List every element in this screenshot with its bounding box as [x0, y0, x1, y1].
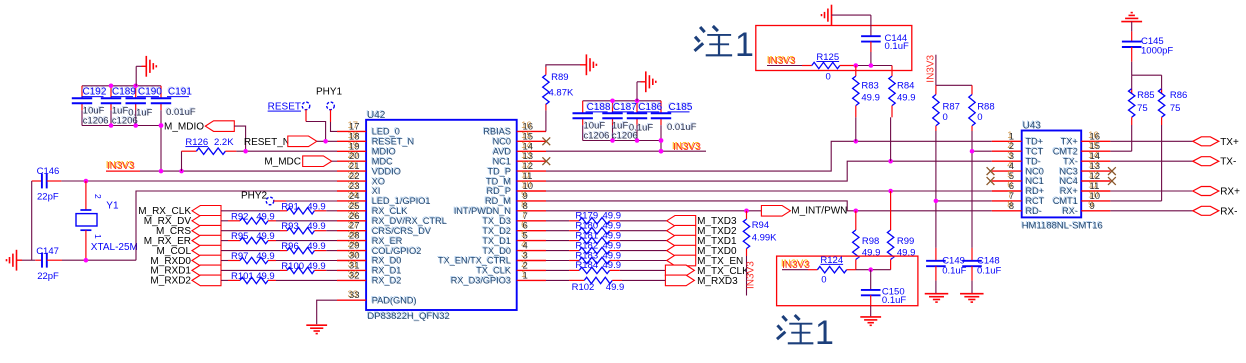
wire RESET: [306, 110, 326, 142]
wire TCT: [972, 150, 992, 152]
wire AVD cap bank top rail: [583, 101, 661, 114]
test point PHY1: [316, 86, 343, 109]
svg-text:R98: R98: [862, 236, 879, 247]
svg-text:C187: C187: [613, 102, 637, 113]
svg-text:49.9: 49.9: [897, 92, 916, 103]
svg-text:C185: C185: [669, 102, 693, 113]
no-connect NC1 pin5: [987, 177, 995, 185]
svg-text:C192: C192: [83, 87, 107, 98]
pin 17 LED_0 of U42: [337, 120, 400, 137]
port M_TXD0: [667, 245, 737, 257]
svg-text:R89: R89: [551, 72, 568, 83]
pin 1 RX_D3/GPIO3 of U42: [450, 269, 546, 286]
svg-text:IN3V3: IN3V3: [673, 142, 701, 153]
capacitor C147: [35, 246, 62, 282]
port M_CRS: [156, 225, 221, 237]
wire AVD: [546, 150, 706, 152]
pin 12 NC4 of U43: [1059, 170, 1111, 187]
capacitor C187: [602, 101, 637, 142]
ground: [586, 54, 596, 75]
port M_TXD2: [667, 225, 737, 237]
port RESET_N: [244, 136, 317, 148]
port M_TXD1: [667, 235, 737, 247]
note text 1: [695, 26, 754, 64]
svg-text:75: 75: [1170, 103, 1181, 114]
pin 8 RD- of U43: [992, 199, 1042, 216]
svg-text:49.9: 49.9: [307, 201, 326, 212]
ground: [925, 294, 949, 302]
svg-text:R99: R99: [897, 236, 914, 247]
svg-text:R96: R96: [281, 241, 298, 252]
svg-text:49.9: 49.9: [862, 248, 881, 259]
pin 23 XI of U42: [337, 180, 380, 197]
resistor R93: [221, 221, 337, 234]
pin 9 RX- of U43: [1061, 199, 1110, 216]
junction: [610, 138, 639, 143]
svg-text:33: 33: [349, 290, 360, 301]
svg-text:c1206: c1206: [584, 131, 610, 142]
pin 14 TX- of U43: [1062, 150, 1110, 167]
svg-text:R95: R95: [231, 231, 248, 242]
note text 1: [777, 314, 834, 352]
resistor R181: [546, 230, 667, 243]
resistor R102: [546, 277, 665, 293]
pin 16 TX+ of U43: [1060, 130, 1111, 147]
svg-text:49.9: 49.9: [603, 260, 622, 271]
port M_MDC: [264, 156, 331, 168]
wire VDDIO cap bank top rail: [82, 86, 161, 99]
svg-text:1000pF: 1000pF: [1141, 46, 1173, 57]
svg-text:0: 0: [821, 274, 826, 285]
resistor R126: [182, 137, 246, 171]
resistor R98: [853, 211, 881, 270]
port M_TX_EN: [667, 255, 744, 267]
svg-text:C146: C146: [37, 166, 60, 177]
svg-text:22pF: 22pF: [37, 271, 59, 282]
wire bias tee: [936, 85, 972, 94]
wire MDIO: [234, 126, 337, 151]
svg-text:U42: U42: [367, 110, 386, 121]
svg-text:0.1uF: 0.1uF: [942, 266, 966, 277]
svg-text:C190: C190: [138, 87, 162, 98]
svg-text:49.9: 49.9: [256, 251, 275, 262]
port RX-: [1193, 206, 1238, 217]
wire PHY1 to LED_0: [331, 110, 338, 132]
pin 5 TX_D1 of U42: [481, 229, 546, 246]
capacitor C144: [861, 15, 909, 65]
resistor R124: [808, 255, 856, 286]
svg-text:1: 1: [735, 26, 754, 64]
pin 13 NC1 of U42: [492, 150, 546, 167]
junction: [659, 149, 664, 154]
svg-text:PHY2: PHY2: [241, 191, 268, 202]
svg-text:RESET_N: RESET_N: [244, 137, 290, 148]
svg-text:R184: R184: [575, 260, 598, 271]
junction: [84, 258, 89, 263]
capacitor C186: [627, 101, 663, 134]
svg-text:R83: R83: [861, 80, 878, 91]
pin 19 MDIO of U42: [337, 140, 396, 157]
resistor R89: [543, 67, 574, 131]
pin 2 TCT of U43: [992, 140, 1044, 157]
svg-text:0.01uF: 0.01uF: [166, 107, 196, 118]
svg-text:49.9: 49.9: [256, 271, 275, 282]
port M_RXD0: [150, 255, 221, 267]
pin 3 TD- of U43: [992, 150, 1041, 167]
wire RD_P: [546, 190, 992, 192]
svg-text:TX-: TX-: [1220, 157, 1236, 168]
ground: [136, 56, 156, 86]
resistor R180: [546, 221, 667, 234]
resistor R97: [221, 251, 337, 264]
svg-text:U43: U43: [1023, 121, 1042, 132]
wire TD_P: [546, 141, 992, 171]
wire PAD(GND): [317, 300, 337, 324]
svg-text:RX_D3/GPIO3: RX_D3/GPIO3: [451, 276, 511, 286]
pin 7 TX_D3 of U42: [481, 209, 546, 226]
svg-text:49.9: 49.9: [307, 241, 326, 252]
svg-text:R126: R126: [185, 137, 208, 148]
resistor R94: [743, 211, 777, 256]
svg-text:R86: R86: [1170, 90, 1187, 101]
junction: [109, 123, 138, 128]
svg-text:RX_D2: RX_D2: [372, 276, 402, 286]
svg-text:4.87K: 4.87K: [549, 88, 574, 99]
pin 6 RD+ of U43: [992, 180, 1044, 197]
svg-text:R102: R102: [572, 282, 595, 293]
pin 10 CMT1 of U43: [1052, 190, 1111, 207]
svg-text:49.9: 49.9: [256, 211, 275, 222]
svg-text:8: 8: [1009, 201, 1014, 212]
pin 8 INT/PWDN_N of U42: [453, 199, 546, 216]
svg-text:R91: R91: [281, 201, 298, 212]
wire XO: [61, 180, 337, 182]
resistor R83: [853, 66, 880, 142]
pin 25 RX_CLK of U42: [337, 199, 408, 216]
port M_TXD3: [667, 216, 737, 228]
svg-text:0: 0: [943, 112, 948, 123]
port M_RXD2: [150, 275, 221, 287]
wire MDC: [332, 160, 337, 162]
pin 16 RBIAS of U42: [482, 120, 546, 137]
junction: [934, 199, 939, 204]
ground: [1121, 13, 1142, 22]
svg-text:M_MDIO: M_MDIO: [164, 122, 204, 133]
svg-text:R88: R88: [977, 101, 994, 112]
resistor R99: [887, 191, 915, 270]
svg-text:2: 2: [93, 194, 103, 199]
pin 9 RD_M of U42: [484, 190, 546, 207]
svg-text:49.9: 49.9: [861, 92, 880, 103]
port M_RX_CLK: [138, 206, 221, 218]
pin 24 LED_1/GPIO1 of U42: [337, 190, 431, 207]
resistor R101: [221, 271, 337, 284]
pin 29 COL/GPIO2 of U42: [337, 239, 421, 256]
wire VDDIO cap bank bottom rail: [82, 103, 161, 125]
svg-text:1: 1: [815, 314, 834, 352]
no-connect NC1 pin13: [542, 157, 550, 165]
resistor R88: [969, 95, 995, 248]
resistor R91: [221, 201, 337, 214]
svg-text:1: 1: [523, 270, 528, 281]
capacitor C148: [962, 248, 1001, 294]
junction: [84, 179, 89, 184]
pin 14 AVD of U42: [492, 140, 546, 157]
wire XI: [136, 191, 337, 260]
port TX+: [1193, 137, 1239, 148]
power port IN3V3: [926, 54, 937, 85]
transformer U43 HM1188NL-SMT16 body: [1021, 120, 1103, 232]
svg-text:R85: R85: [1137, 90, 1154, 101]
svg-text:R125: R125: [816, 52, 839, 63]
junction: [659, 138, 664, 143]
port TX-: [1193, 157, 1237, 168]
svg-text:1: 1: [93, 234, 103, 239]
note box: [777, 256, 918, 306]
resistor R86: [1158, 89, 1187, 201]
svg-text:R94: R94: [752, 220, 769, 231]
resistor R95: [221, 231, 337, 244]
resistor R182: [546, 240, 667, 253]
IC U42 DP83822H_QFN32 body: [366, 109, 517, 322]
power port IN3V3: [106, 160, 140, 172]
ground: [306, 325, 327, 333]
svg-text:C191: C191: [168, 87, 192, 98]
wire RX+: [1110, 190, 1192, 192]
svg-text:RX+: RX+: [1220, 187, 1240, 198]
capacitor C190: [126, 86, 163, 119]
junction: [323, 139, 328, 144]
svg-text:PAD(GND): PAD(GND): [372, 295, 417, 305]
pin 22 XO of U42: [337, 170, 385, 187]
svg-text:R93: R93: [281, 221, 298, 232]
pin 2 TX_CLK of U42: [475, 259, 546, 276]
svg-text:0.1uF: 0.1uF: [882, 295, 906, 306]
svg-text:R101: R101: [231, 271, 254, 282]
svg-text:M_INT/PWN: M_INT/PWN: [791, 206, 847, 217]
svg-text:49.9: 49.9: [606, 282, 625, 293]
power port IN3V3: [672, 141, 701, 153]
svg-text:RD-: RD-: [1026, 206, 1042, 216]
wire RX-: [1110, 210, 1192, 212]
wire RD_M: [546, 201, 992, 211]
capacitor C189: [101, 86, 138, 127]
junction: [854, 63, 874, 68]
svg-text:0.1uF: 0.1uF: [977, 266, 1001, 277]
svg-text:Y1: Y1: [106, 200, 119, 211]
svg-text:C189: C189: [112, 87, 136, 98]
no-connect NC4 pin12: [1108, 177, 1116, 185]
wire XTAL bottom: [62, 259, 136, 261]
resistor R100: [221, 261, 337, 274]
svg-text:R87: R87: [943, 101, 960, 112]
pin 28 RX_ER of U42: [337, 229, 403, 246]
resistor R183: [546, 250, 667, 263]
wire bank to IN3V3 rail: [160, 126, 162, 172]
no-connect NC3 pin13: [1108, 167, 1116, 175]
capacitor C146: [32, 166, 62, 203]
ground: [860, 317, 881, 325]
capacitor C149: [926, 248, 967, 294]
pin 27 CRS/CRS_DV of U42: [337, 219, 432, 236]
capacitor C145: [1122, 22, 1174, 62]
svg-text:DP83822H_QFN32: DP83822H_QFN32: [367, 311, 449, 322]
port M_MDIO: [164, 121, 234, 133]
junction: [744, 209, 749, 214]
pin 11 RX+ of U43: [1059, 180, 1111, 197]
svg-text:PHY1: PHY1: [316, 86, 343, 97]
svg-text:R124: R124: [820, 255, 843, 266]
junction: [159, 123, 164, 128]
port M_RX_DV: [144, 216, 221, 228]
pin 12 TD_P of U42: [487, 160, 547, 177]
pin 26 RX_DV/RX_CTRL of U42: [337, 209, 447, 226]
test point PHY2: [241, 191, 274, 205]
port M_RXD3: [665, 275, 738, 287]
no-connect NC0 pin15: [542, 137, 550, 145]
svg-text:0.01uF: 0.01uF: [667, 122, 697, 133]
svg-text:0: 0: [977, 112, 982, 123]
svg-text:TX+: TX+: [1220, 137, 1239, 148]
pin 20 MDC of U42: [337, 150, 393, 167]
resistor R92: [221, 211, 337, 224]
wire AVD cap bank bottom rail: [583, 118, 661, 140]
svg-text:R97: R97: [231, 251, 248, 262]
pin 4 TX_D0 of U42: [481, 239, 546, 256]
wire RESET_N: [317, 140, 337, 142]
pin 11 TD_M of U42: [485, 170, 546, 187]
svg-text:c1206: c1206: [83, 115, 109, 126]
pin 13 NC3 of U43: [1059, 160, 1111, 177]
resistor R87: [933, 85, 960, 248]
svg-text:0.1uF: 0.1uF: [629, 123, 653, 134]
resistor R184: [546, 260, 667, 273]
wire IN3V3 rail to VDDIO: [140, 170, 337, 172]
port RX+: [1193, 187, 1240, 198]
junction: [610, 99, 639, 104]
power port IN3V3: [781, 259, 810, 271]
svg-text:XTAL-25M: XTAL-25M: [91, 242, 138, 253]
wire CMT2: [1110, 150, 1131, 152]
svg-text:IN3V3: IN3V3: [782, 260, 810, 271]
svg-text:RX-: RX-: [1220, 206, 1237, 217]
port M_TX_CLK: [665, 265, 749, 277]
pin 18 RESET_N of U42: [337, 130, 414, 147]
junction: [854, 139, 893, 213]
svg-text:C188: C188: [587, 102, 611, 113]
pin 5 NC1 of U43: [992, 170, 1044, 187]
ground: [7, 250, 36, 271]
pin 3 TX_EN/TX_CTRL of U42: [437, 249, 546, 266]
svg-text:0.1uF: 0.1uF: [885, 41, 909, 52]
note box: [756, 26, 912, 71]
resistor R84: [889, 66, 916, 162]
svg-text:22pF: 22pF: [37, 192, 59, 203]
resistor R179: [546, 211, 667, 224]
svg-text:R100: R100: [281, 261, 304, 272]
port M_RX_ER: [144, 235, 221, 247]
wire TD_M: [546, 161, 992, 181]
wire bank to AVD rail: [660, 141, 662, 152]
svg-text:R92: R92: [231, 211, 248, 222]
svg-text:49.9: 49.9: [307, 261, 326, 272]
ground: [960, 294, 984, 302]
wire C145 to terminators: [1132, 62, 1162, 89]
wire termination node: [856, 269, 891, 271]
svg-text:M_MDC: M_MDC: [264, 157, 301, 168]
svg-text:49.9: 49.9: [307, 221, 326, 232]
svg-text:49.9: 49.9: [256, 231, 275, 242]
pin 4 NC0 of U43: [992, 160, 1044, 177]
pin 15 CMT2 of U43: [1052, 140, 1111, 157]
junction: [109, 84, 138, 89]
svg-text:32: 32: [349, 270, 360, 281]
wire PHY2 to LED_1: [274, 200, 337, 202]
capacitor C150: [861, 270, 906, 317]
test point RESET: [268, 102, 310, 113]
svg-text:C186: C186: [638, 102, 662, 113]
port M_RXD1: [150, 265, 221, 277]
svg-text:75: 75: [1137, 103, 1148, 114]
svg-text:IN3V3: IN3V3: [926, 54, 937, 82]
resistor R85: [1129, 75, 1155, 151]
wire TX-: [1110, 160, 1192, 162]
crystal Y1: [76, 181, 138, 260]
power port IN3V3: [767, 55, 802, 67]
capacitor C188: [573, 101, 611, 142]
pin 6 TX_D2 of U42: [481, 219, 546, 236]
pin 32 RX_D2 of U42: [337, 269, 401, 286]
port M_COL: [157, 245, 221, 257]
wire INT/PWDN_N: [546, 210, 761, 212]
svg-text:HM1188NL-SMT16: HM1188NL-SMT16: [1022, 221, 1103, 232]
svg-text:IN3V3: IN3V3: [746, 261, 757, 289]
ground: [637, 71, 656, 100]
svg-text:RX-: RX-: [1062, 206, 1078, 216]
svg-text:M_RXD3: M_RXD3: [697, 276, 738, 287]
pin 1 TD+ of U43: [992, 130, 1043, 147]
pin 10 RD_P of U42: [485, 180, 546, 197]
wire TX+: [1110, 140, 1192, 142]
junction: [970, 149, 975, 154]
svg-text:2.2K: 2.2K: [214, 137, 234, 148]
wire RCT: [936, 200, 992, 202]
pin 7 RCT of U43: [992, 190, 1045, 207]
svg-text:0.1uF: 0.1uF: [128, 107, 152, 118]
pin 30 RX_D0 of U42: [337, 249, 401, 266]
port M_INT/PWN: [761, 206, 847, 217]
ground: [822, 5, 871, 26]
wire note1 node: [856, 65, 892, 67]
power port IN3V3: [746, 256, 757, 296]
svg-text:RESET: RESET: [268, 102, 301, 113]
junction: [159, 169, 184, 174]
junction: [868, 267, 873, 272]
svg-text:R84: R84: [897, 80, 914, 91]
capacitor C192: [72, 86, 109, 127]
wire C146 left to ground rail: [31, 181, 33, 260]
junction: [243, 149, 248, 154]
svg-text:0: 0: [826, 72, 831, 83]
wire RBIAS gnd: [546, 65, 587, 67]
capacitor C185: [651, 101, 697, 133]
pin 21 VDDIO of U42: [337, 160, 401, 177]
pin 33 PAD(GND) of U42: [337, 289, 417, 306]
pin 15 NC0 of U42: [492, 130, 546, 147]
no-connect NC0 pin4: [987, 167, 995, 175]
capacitor C191: [151, 86, 196, 119]
resistor R125: [802, 52, 856, 83]
